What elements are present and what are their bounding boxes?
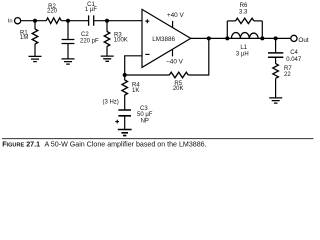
resistor R2	[46, 18, 61, 24]
svg-text:1K: 1K	[132, 88, 139, 94]
capacitor C2	[62, 40, 75, 44]
node C1/R3	[105, 19, 109, 23]
svg-text:100K: 100K	[114, 38, 128, 44]
node output/feedback	[207, 36, 211, 40]
svg-text:FIGURE 27.1: FIGURE 27.1	[2, 140, 40, 148]
wire R3 bottom	[106, 46, 108, 56]
resistor R7	[273, 64, 279, 79]
caption rule	[2, 138, 314, 140]
ground below R7	[269, 98, 282, 103]
node R2/C2	[66, 19, 70, 23]
resistor R6	[236, 18, 254, 23]
ground below C2	[62, 59, 75, 64]
caption text	[2, 140, 206, 148]
resistor R3	[104, 32, 110, 47]
wire C2 bottom	[67, 44, 69, 59]
svg-text:A 50-W Gain Clone amplifier ba: A 50-W Gain Clone amplifier based on the…	[45, 140, 207, 148]
svg-text:+40 V: +40 V	[167, 12, 185, 19]
svg-text:3 µH: 3 µH	[236, 51, 249, 57]
node feedback/R4	[123, 73, 127, 77]
svg-text:0.047: 0.047	[286, 57, 302, 63]
resistor R4	[122, 80, 128, 95]
svg-text:–40 V: –40 V	[166, 59, 183, 66]
wire R6 top left	[227, 20, 235, 22]
node L1 left	[225, 36, 229, 40]
ground below R3	[101, 56, 114, 61]
capacitor C3 polarized	[118, 110, 131, 116]
wire op-amp output	[191, 37, 291, 39]
wire R5 to output	[188, 38, 209, 75]
wire R3 top	[106, 21, 108, 32]
wire C2 top	[67, 21, 69, 40]
op-amp V+ pin	[172, 21, 174, 28]
op-amp V- pin	[172, 49, 174, 56]
wire R6 top right	[254, 20, 262, 22]
svg-text:3.3: 3.3	[239, 10, 248, 16]
wire node to R5	[125, 74, 170, 76]
minus input mark	[145, 53, 149, 55]
wire C4 top	[275, 38, 277, 53]
svg-text:(3 Hz): (3 Hz)	[102, 100, 118, 106]
wire R7 bottom	[275, 78, 277, 98]
plus input mark	[145, 19, 149, 23]
svg-text:20K: 20K	[173, 86, 184, 92]
output terminal Out	[291, 35, 297, 41]
svg-text:In: In	[8, 19, 13, 25]
capacitor C1	[89, 15, 94, 25]
inductor L1	[231, 32, 258, 38]
resistor R5	[169, 72, 188, 78]
wire inverting input	[125, 56, 142, 75]
wire C1 to op-amp	[94, 20, 142, 22]
svg-text:50 µF: 50 µF	[137, 112, 153, 118]
ground below R1	[29, 56, 42, 61]
svg-text:NP: NP	[141, 118, 149, 124]
wire R4 top	[124, 75, 126, 80]
svg-text:22: 22	[284, 72, 291, 78]
capacitor C4	[268, 53, 283, 57]
wire R4 to C3	[124, 95, 126, 110]
wire input to R2	[21, 20, 46, 22]
wire R2 to C1	[61, 20, 88, 22]
input terminal In	[15, 18, 21, 24]
wire R1 bottom	[34, 44, 36, 57]
wire R1 top	[34, 21, 36, 30]
ground below C3	[118, 130, 132, 136]
C3 plus mark	[115, 120, 119, 124]
svg-text:C2: C2	[81, 32, 89, 38]
svg-text:R6: R6	[240, 3, 248, 9]
resistor R1	[32, 29, 38, 44]
svg-text:1M: 1M	[20, 35, 28, 41]
node L1 right	[260, 36, 264, 40]
svg-text:220: 220	[47, 9, 58, 15]
svg-text:220 pF: 220 pF	[80, 39, 99, 45]
node C4	[274, 36, 278, 40]
svg-text:L1: L1	[240, 45, 247, 51]
svg-text:C4: C4	[290, 50, 298, 56]
wire R6 right riser	[261, 21, 263, 39]
wire C3 bottom	[124, 116, 126, 130]
node input/R1	[33, 19, 37, 23]
svg-text:Out: Out	[298, 37, 309, 44]
wire R6 left riser	[226, 21, 228, 39]
svg-text:1 µF: 1 µF	[85, 7, 97, 13]
svg-text:LM3886: LM3886	[152, 36, 175, 43]
op-amp U1 LM3886	[142, 9, 191, 67]
wire C4 to R7	[275, 57, 277, 64]
